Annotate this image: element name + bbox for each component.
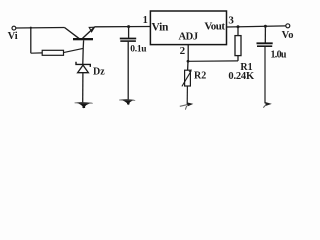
label Vo [282, 30, 294, 41]
label Vin (pin name) [152, 22, 169, 34]
wire Vi branch down [30, 28, 32, 54]
pin 2 number [180, 45, 186, 57]
svg-text:1.0u: 1.0u [271, 50, 287, 61]
transistor Q1 [65, 27, 95, 40]
svg-text:1: 1 [143, 15, 148, 26]
label Dz [93, 67, 105, 78]
wire input rail [16, 27, 65, 30]
svg-text:Vin: Vin [152, 22, 169, 34]
label 0.1u [130, 44, 147, 54]
junction node at R1 branch [237, 25, 240, 28]
pin 1 number [143, 15, 148, 26]
wire branch to bias resistor [31, 52, 42, 54]
input terminal Vi [12, 26, 16, 30]
svg-text:2: 2 [180, 45, 186, 57]
wire 0.1u to ground [127, 42, 129, 100]
ground (0.1u branch) [119, 99, 135, 105]
regulator U1 box [150, 11, 226, 45]
capacitor C2 1.0u [257, 43, 273, 46]
svg-text:0.24K: 0.24K [228, 71, 255, 82]
pin 3 number [228, 14, 234, 26]
resistor R1 [235, 36, 241, 56]
wire ADJ horizontal [188, 60, 238, 62]
wire R1 bottom lead [237, 56, 239, 61]
svg-text:3: 3 [228, 14, 234, 26]
wire 1.0u to ground [264, 47, 266, 104]
wire emitter to regulator pin1 [94, 26, 150, 28]
svg-text:ADJ: ADJ [178, 31, 197, 42]
label R1 [240, 62, 252, 73]
capacitor C1 0.1u [120, 39, 136, 42]
svg-text:Dz: Dz [93, 67, 105, 78]
svg-text:Vi: Vi [8, 31, 18, 42]
svg-text:R2: R2 [194, 71, 206, 82]
output terminal Vo [286, 24, 290, 28]
label 1.0u [271, 50, 287, 61]
ground (R2 branch) [180, 102, 194, 109]
resistor R3 (bias, unlabeled) [42, 50, 63, 55]
junction node ADJ [187, 60, 190, 63]
svg-text:Vo: Vo [282, 30, 294, 41]
wire regulator output rail [227, 26, 286, 27]
wire resistor to base node [64, 48, 84, 52]
label Vout (pin name) [204, 21, 225, 33]
wire base lead down to zener [82, 40, 85, 64]
junction node at 1.0u branch [264, 25, 267, 28]
label 0.24K [228, 71, 255, 82]
label Vi [8, 31, 18, 42]
ground (1.0u branch) [263, 102, 272, 108]
wire 0.1u cap branch [128, 27, 130, 38]
node Vi branch T [30, 27, 32, 29]
label ADJ (pin name) [178, 31, 197, 42]
wire 1.0u top lead [264, 26, 266, 42]
wire zener to ground [82, 73, 84, 103]
variable resistor R2 [182, 69, 192, 86]
label R2 [194, 71, 206, 82]
wire ADJ node to R2 [187, 61, 189, 70]
svg-text:0.1u: 0.1u [130, 44, 147, 54]
wire pin2 lead down [187, 45, 189, 62]
wire R2 to ground [186, 86, 188, 105]
junction node at 0.1u branch [127, 25, 130, 28]
svg-text:Vout: Vout [204, 21, 225, 33]
zener diode Dz [76, 62, 90, 73]
ground (zener branch) [75, 102, 93, 108]
wire R1 top lead [237, 27, 239, 36]
